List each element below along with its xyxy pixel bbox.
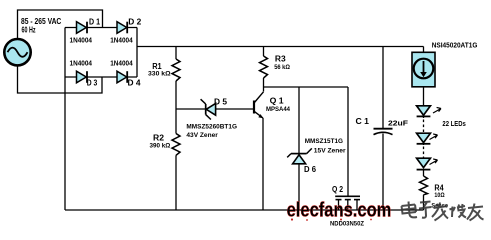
wire right bridge node bbox=[136, 28, 138, 78]
LED 1 bbox=[417, 106, 441, 117]
wire dashed LED gap 2 bbox=[423, 147, 425, 158]
svg-text:1N4004: 1N4004 bbox=[110, 38, 133, 45]
svg-text:43V Zener: 43V Zener bbox=[186, 132, 218, 139]
wire bridge row2 bbox=[65, 76, 137, 78]
svg-text:MMSZ5260BT1G: MMSZ5260BT1G bbox=[186, 123, 237, 130]
svg-text:10Ω: 10Ω bbox=[434, 192, 444, 199]
wire bottom rail bbox=[65, 209, 424, 211]
wire Q2 gate drop bbox=[347, 87, 349, 196]
current regulator U1 NSI45020AT1G bbox=[412, 41, 478, 87]
svg-text:C 1: C 1 bbox=[356, 117, 370, 126]
svg-text:D 1: D 1 bbox=[89, 17, 100, 26]
svg-text:22 LEDs: 22 LEDs bbox=[442, 121, 465, 128]
diode D4 bbox=[110, 61, 141, 88]
svg-text:R1: R1 bbox=[152, 62, 162, 71]
resistor R2 bbox=[150, 134, 181, 156]
wire D6 branch bbox=[298, 87, 300, 210]
capacitor C1 bbox=[356, 117, 409, 135]
svg-text:15V Zener: 15V Zener bbox=[314, 148, 346, 155]
svg-text:1N4004: 1N4004 bbox=[70, 61, 93, 68]
zener D5 bbox=[186, 97, 237, 139]
svg-text:Q 2: Q 2 bbox=[332, 185, 343, 194]
resistor R4 bbox=[420, 176, 445, 199]
wire emitter drop bbox=[262, 118, 264, 210]
svg-text:MPSA44: MPSA44 bbox=[266, 106, 290, 113]
svg-text:60 Hz: 60 Hz bbox=[22, 25, 36, 34]
wire R3 branch bbox=[263, 47, 265, 92]
watermark chinese char zi bbox=[419, 202, 432, 218]
diode D3 bbox=[70, 61, 98, 88]
diode D2 bbox=[110, 17, 142, 44]
watermark chinese char dian bbox=[402, 202, 418, 218]
wire D5 row bbox=[176, 108, 253, 110]
wire R1 R2 branch bbox=[175, 47, 177, 211]
wire bridge row1 bbox=[65, 27, 137, 29]
watermark chinese char shao bbox=[450, 204, 467, 218]
transistor Q1 bbox=[254, 92, 290, 119]
wire dashed LED gap 1 bbox=[423, 120, 425, 133]
svg-text:D 2: D 2 bbox=[128, 17, 142, 26]
svg-text:Q 1: Q 1 bbox=[270, 97, 285, 106]
resistor R1 bbox=[148, 59, 180, 81]
svg-text:R3: R3 bbox=[275, 55, 286, 64]
svg-text:D 3: D 3 bbox=[87, 78, 98, 87]
wire AC top loop bbox=[18, 10, 103, 39]
svg-text:56 kΩ: 56 kΩ bbox=[274, 64, 290, 71]
svg-text:elecfans.com: elecfans.com bbox=[287, 199, 392, 222]
wire left rail bbox=[64, 28, 66, 211]
svg-text:330 kΩ: 330 kΩ bbox=[148, 71, 171, 78]
svg-text:1N4004: 1N4004 bbox=[110, 61, 133, 68]
watermark chinese char fa bbox=[432, 203, 448, 221]
svg-text:NSI45020AT1G: NSI45020AT1G bbox=[432, 41, 478, 50]
LED 3 bbox=[417, 158, 438, 169]
mosfet Q2 bbox=[330, 185, 364, 228]
svg-text:R2: R2 bbox=[153, 134, 165, 143]
wire AC bottom loop bbox=[18, 66, 103, 93]
AC source V1 bbox=[4, 39, 30, 65]
watermark chinese char you bbox=[467, 204, 484, 221]
watermark elecfans.com bbox=[287, 199, 392, 222]
wire regulator pins bbox=[423, 47, 425, 106]
svg-text:390 kΩ: 390 kΩ bbox=[150, 142, 171, 149]
LED 2 bbox=[417, 133, 438, 144]
svg-text:D 6: D 6 bbox=[304, 165, 317, 174]
diode D1 bbox=[70, 17, 101, 44]
svg-text:D 4: D 4 bbox=[128, 78, 142, 87]
svg-text:D 5: D 5 bbox=[214, 97, 228, 106]
svg-text:1N4004: 1N4004 bbox=[70, 38, 93, 45]
svg-text:22uF: 22uF bbox=[388, 120, 409, 127]
zener D6 bbox=[287, 138, 346, 174]
wire collector node bbox=[264, 86, 349, 88]
wire top bus bbox=[137, 46, 424, 48]
svg-text:MMSZ15T1G: MMSZ15T1G bbox=[305, 138, 343, 145]
resistor R3 bbox=[260, 55, 291, 79]
wire C1 branch bbox=[382, 47, 384, 211]
wire LED chain segments bbox=[423, 116, 425, 210]
